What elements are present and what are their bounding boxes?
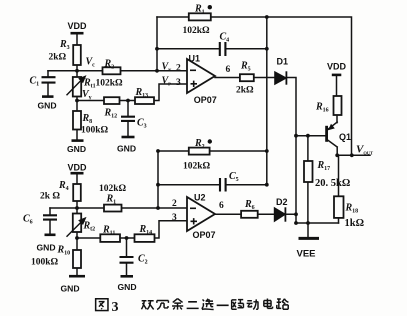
svg-text:2kΩ: 2kΩ (236, 86, 254, 96)
svg-text:D1: D1 (277, 57, 289, 67)
svg-text:102kΩ: 102kΩ (183, 26, 211, 36)
svg-text:3: 3 (112, 300, 119, 315)
svg-text:100kΩ: 100kΩ (31, 258, 59, 268)
svg-text:VEE: VEE (297, 249, 316, 260)
svg-text:U2: U2 (194, 193, 206, 203)
svg-text:6: 6 (219, 201, 224, 211)
svg-text:2kΩ: 2kΩ (49, 53, 67, 63)
svg-text:OP07: OP07 (194, 95, 217, 105)
svg-text:102kΩ: 102kΩ (99, 184, 127, 194)
svg-text:D2: D2 (276, 197, 288, 207)
svg-text:102kΩ: 102kΩ (96, 79, 124, 89)
svg-text:6: 6 (226, 65, 231, 75)
svg-text:3: 3 (172, 213, 177, 223)
svg-text:VDD: VDD (68, 163, 88, 173)
svg-text:Q1: Q1 (339, 132, 351, 142)
svg-text:GND: GND (67, 144, 86, 154)
svg-text:1kΩ: 1kΩ (345, 218, 365, 229)
svg-text:GND: GND (38, 101, 57, 111)
svg-text:100kΩ: 100kΩ (81, 126, 109, 136)
svg-text:U1: U1 (189, 54, 201, 64)
svg-text:GND: GND (37, 243, 56, 253)
svg-text:20. 5kΩ: 20. 5kΩ (315, 178, 350, 189)
svg-text:VDD: VDD (68, 21, 88, 31)
svg-text:102kΩ: 102kΩ (183, 161, 211, 171)
svg-text:2: 2 (172, 199, 177, 209)
svg-text:OP07: OP07 (193, 230, 216, 240)
svg-text:GND: GND (117, 143, 136, 153)
svg-text:3: 3 (176, 78, 181, 88)
svg-text:VDD: VDD (327, 61, 347, 71)
svg-text:GND: GND (61, 284, 80, 294)
svg-text:GND: GND (118, 282, 137, 292)
svg-text:2: 2 (176, 64, 181, 74)
svg-text:2k Ω: 2k Ω (40, 192, 60, 202)
